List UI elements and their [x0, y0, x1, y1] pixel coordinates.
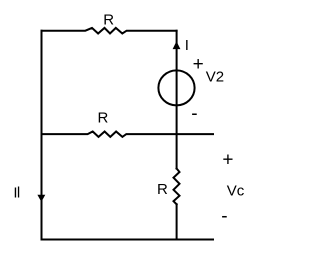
svg-text:+: +: [222, 150, 233, 171]
svg-text:+: +: [193, 54, 204, 75]
svg-text:V2: V2: [206, 68, 224, 85]
svg-text:R: R: [98, 110, 109, 127]
svg-text:R: R: [103, 11, 114, 28]
svg-text:I: I: [185, 37, 189, 54]
svg-text:Il: Il: [13, 185, 19, 202]
svg-text:Vc: Vc: [227, 183, 245, 200]
svg-text:-: -: [191, 104, 197, 125]
svg-text:-: -: [221, 206, 227, 227]
svg-text:R: R: [157, 181, 168, 198]
